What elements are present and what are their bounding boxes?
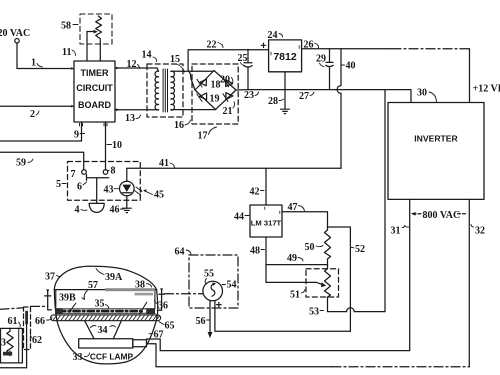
svg-text:66: 66 — [35, 316, 45, 327]
svg-text:24: 24 — [268, 30, 278, 41]
pin tick marks on timer board — [80, 123, 108, 126]
svg-text:16: 16 — [174, 120, 184, 131]
potentiometer 49/51 element — [306, 269, 339, 297]
svg-text:58: 58 — [61, 21, 71, 32]
reflector side walls — [56, 290, 155, 309]
ground rail 23/27 — [236, 90, 411, 103]
wire 32 (inverter output to lamp, bottom rail) — [147, 344, 333, 367]
wire secondary bottom to bridge — [171, 109, 216, 111]
wire 12 — [115, 67, 157, 69]
electrode block right — [146, 308, 155, 314]
meter 54 — [203, 281, 223, 301]
svg-text:63: 63 — [0, 338, 6, 349]
svg-text:39A: 39A — [105, 272, 123, 283]
svg-text:46: 46 — [110, 205, 120, 216]
lamp pin 36 — [157, 288, 164, 310]
svg-text:7: 7 — [71, 169, 76, 180]
svg-text:54: 54 — [227, 280, 237, 291]
wire 48 (ADJ) — [265, 237, 267, 265]
potentiometer 58 — [80, 14, 112, 61]
svg-text:13: 13 — [125, 113, 135, 124]
diode 18 — [197, 79, 206, 87]
svg-text:30: 30 — [417, 88, 427, 99]
svg-text:56: 56 — [196, 316, 206, 327]
svg-text:25: 25 — [238, 53, 248, 64]
wire 9 — [0, 122, 82, 141]
diode 19 — [197, 93, 207, 101]
meter plus terminal — [217, 302, 221, 306]
wire 42 — [265, 168, 267, 205]
wire 22 DC+ from bridge to 7812 — [188, 50, 269, 90]
svg-text:64: 64 — [175, 247, 185, 258]
meter enclosure 64 — [189, 255, 238, 308]
ground 46 — [122, 208, 131, 212]
svg-text:18: 18 — [211, 80, 221, 91]
svg-text:4: 4 — [75, 205, 80, 216]
wire 26 (+12V rail) — [302, 48, 392, 50]
capacitor 29 — [326, 49, 333, 90]
svg-text:45: 45 — [154, 190, 164, 201]
svg-text:8: 8 — [111, 166, 116, 177]
svg-text:22: 22 — [207, 40, 217, 51]
svg-text:11: 11 — [62, 47, 71, 58]
svg-text:TIMER: TIMER — [81, 68, 109, 78]
lamp supports 34 — [85, 321, 122, 339]
diode 21 — [223, 93, 233, 102]
svg-text:21: 21 — [223, 106, 233, 117]
arrow into plate left — [70, 303, 76, 311]
LED emission arrows — [135, 187, 141, 194]
svg-text:BOARD: BOARD — [78, 100, 111, 110]
svg-text:12: 12 — [127, 59, 137, 70]
svg-text:49: 49 — [287, 253, 297, 264]
svg-text:40: 40 — [346, 61, 356, 72]
ground 28 at 7812 — [284, 72, 286, 109]
svg-text:65: 65 — [165, 321, 175, 332]
svg-text:1: 1 — [31, 58, 36, 69]
svg-text:38: 38 — [135, 280, 145, 291]
dash-dot wire lamp pin 36 to meter — [165, 293, 204, 295]
switch blade 6 — [87, 175, 109, 204]
svg-text:14: 14 — [142, 50, 152, 61]
svg-text:+12 VDC: +12 VDC — [473, 84, 500, 95]
diode 20 — [224, 79, 233, 87]
svg-text:55: 55 — [204, 269, 214, 280]
svg-text:50: 50 — [305, 242, 315, 253]
wire 1 — [17, 43, 71, 69]
svg-text:6: 6 — [77, 182, 82, 193]
svg-text:31: 31 — [391, 226, 401, 237]
svg-text:52: 52 — [355, 244, 365, 255]
svg-text:36: 36 — [158, 301, 168, 312]
svg-text:LM 317T: LM 317T — [251, 218, 282, 227]
svg-text:62: 62 — [32, 335, 42, 346]
regulator LM 317T (44) — [250, 205, 282, 237]
coating 38 — [105, 288, 155, 291]
dash-dot wire to pin 66 — [31, 305, 48, 307]
lamp housing dome 37/39A — [54, 266, 157, 364]
svg-text:41: 41 — [159, 158, 169, 169]
svg-text:67: 67 — [154, 330, 164, 341]
wire secondary top to bridge — [171, 70, 214, 72]
wire 2 — [0, 105, 71, 107]
svg-text:7812: 7812 — [273, 51, 297, 63]
svg-text:27: 27 — [299, 91, 309, 102]
bottom rail left piece — [0, 367, 27, 369]
svg-text:43: 43 — [104, 185, 114, 196]
svg-text:23: 23 — [244, 90, 254, 101]
transformer core — [163, 69, 167, 112]
svg-text:59: 59 — [16, 158, 26, 169]
svg-text:35: 35 — [95, 299, 105, 310]
arrow to wire 31 — [414, 213, 422, 215]
svg-text:10: 10 — [112, 140, 122, 151]
wire 13 — [115, 109, 159, 111]
svg-text:2: 2 — [30, 109, 35, 120]
svg-text:9: 9 — [74, 130, 79, 141]
capacitor 25 — [244, 49, 252, 89]
transformer primary winding — [155, 68, 159, 110]
svg-text:34: 34 — [98, 325, 108, 336]
svg-text:INVERTER: INVERTER — [414, 134, 458, 144]
svg-text:44: 44 — [234, 212, 244, 223]
wire 47 (Vout) — [282, 212, 328, 227]
dash-dot wire at left edge — [0, 308, 24, 310]
svg-text:53: 53 — [309, 307, 319, 318]
svg-text:32: 32 — [475, 226, 485, 237]
wire 10 — [105, 122, 107, 170]
diffuser plate 35 — [56, 309, 155, 313]
relay enclosure 5 — [68, 162, 141, 201]
wire ground drop from rail 27 to 53 — [384, 90, 386, 312]
svg-text:37: 37 — [45, 272, 55, 283]
resistor box 61/63 — [1, 328, 23, 363]
wire 40 (+12V down to 41) — [340, 49, 342, 169]
svg-text:26: 26 — [304, 40, 314, 51]
plus sign at 7812 input — [261, 43, 265, 47]
electrode block left — [55, 308, 62, 314]
bridge diamond — [195, 71, 236, 110]
wire 31 (inverter output to lamp) — [147, 199, 410, 350]
connector 62 — [24, 307, 31, 368]
reflector top line — [54, 289, 156, 291]
wire 41 — [127, 167, 341, 169]
svg-text:51: 51 — [290, 290, 300, 301]
wiper wire 51 — [266, 265, 323, 285]
transformer secondary winding — [171, 71, 175, 110]
relay contact 7 — [82, 170, 87, 175]
svg-text:19: 19 — [210, 94, 220, 105]
svg-text:17: 17 — [198, 131, 208, 142]
relay contact 8 — [103, 170, 108, 175]
relay coil 4 — [89, 203, 104, 212]
svg-text:CCF LAMP: CCF LAMP — [90, 352, 134, 362]
CCF lamp 33 — [79, 339, 133, 348]
support band 65 — [51, 315, 161, 321]
svg-text:33: 33 — [73, 352, 83, 363]
svg-text:57: 57 — [88, 280, 98, 291]
inverter 30 — [388, 103, 484, 200]
svg-text:39B: 39B — [59, 293, 76, 304]
LED 43 — [120, 168, 135, 208]
svg-text:42: 42 — [250, 187, 260, 198]
voltage regulator 7812 (24) — [269, 40, 302, 72]
svg-text:120 VAC: 120 VAC — [0, 28, 30, 39]
svg-text:61: 61 — [8, 316, 18, 327]
arrow to wire 32 — [458, 213, 466, 215]
transformer enclosure 14 — [147, 64, 183, 117]
svg-text:CIRCUIT: CIRCUIT — [76, 83, 113, 93]
svg-text:48: 48 — [250, 246, 260, 257]
meter lead to wire 52 — [215, 301, 351, 332]
arrow into plate right — [141, 302, 147, 312]
svg-text:5: 5 — [56, 179, 61, 190]
svg-text:28: 28 — [268, 96, 278, 107]
meter lead with arrow 56 — [209, 301, 211, 333]
svg-text:47: 47 — [288, 202, 298, 213]
wire 53 — [328, 297, 386, 312]
lamp pin 66 — [45, 289, 52, 310]
wire 59 — [0, 152, 84, 169]
svg-text:20: 20 — [220, 75, 230, 86]
svg-text:15: 15 — [170, 54, 180, 65]
timer circuit board 11 — [74, 61, 115, 122]
terminal for 120 VAC — [15, 39, 19, 43]
svg-text:800 VAC: 800 VAC — [423, 210, 461, 221]
bridge enclosure 17 — [192, 64, 238, 124]
wire 49 — [266, 264, 328, 266]
meter needle — [211, 284, 215, 296]
svg-text:29: 29 — [316, 54, 326, 65]
resistor 50 — [325, 227, 331, 269]
wire 52 — [328, 227, 351, 331]
